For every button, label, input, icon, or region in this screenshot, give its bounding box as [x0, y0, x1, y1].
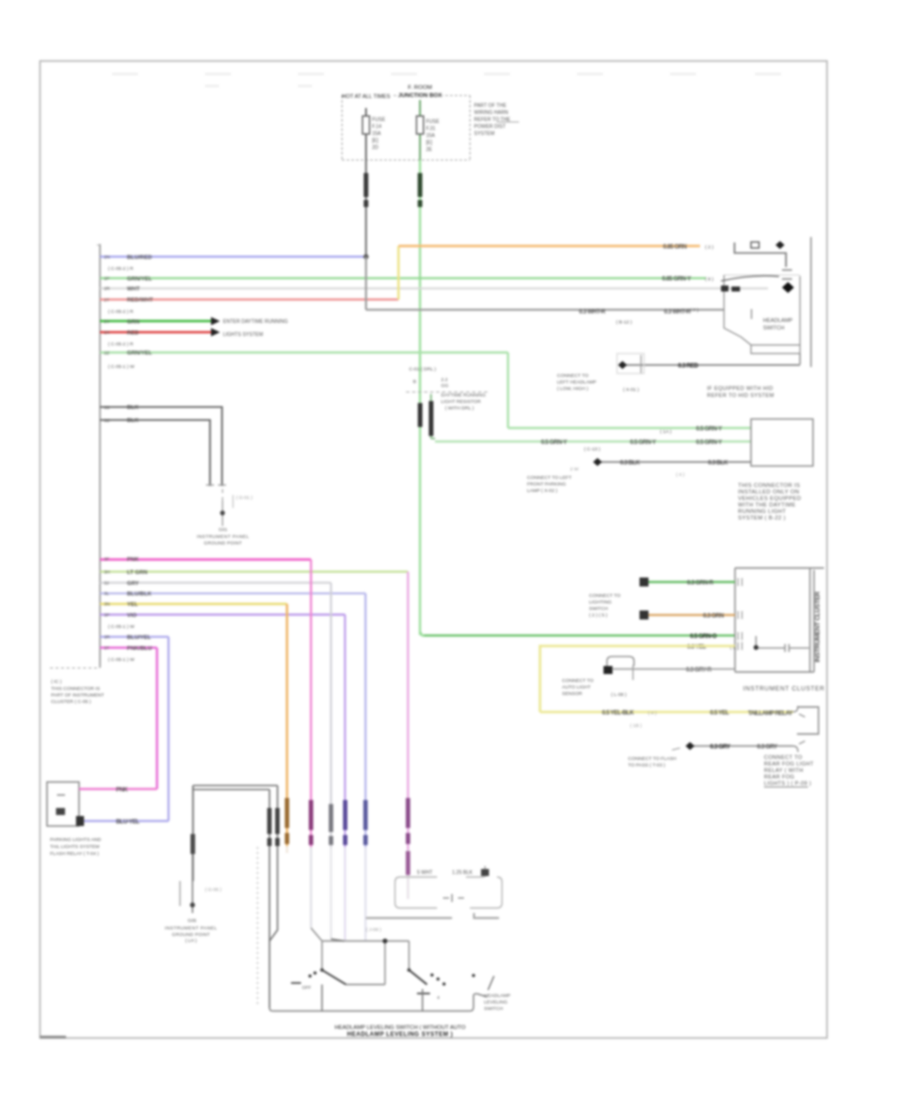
svg-text:3F: 3F [104, 556, 110, 561]
svg-text:0.5 GRN-Y: 0.5 GRN-Y [696, 427, 722, 433]
svg-text:WHT: WHT [127, 287, 140, 293]
svg-text:2X: 2X [104, 330, 110, 335]
svg-text:( C-05-1 ) W: ( C-05-1 ) W [108, 624, 135, 630]
svg-text:FUSE: FUSE [372, 117, 386, 123]
svg-text:0.3 ORN: 0.3 ORN [703, 614, 724, 620]
svg-text:( J-08 ): ( J-08 ) [366, 927, 382, 933]
svg-text:RUNNING LIGHT: RUNNING LIGHT [738, 509, 786, 515]
svg-text:CONNECT TO: CONNECT TO [764, 755, 802, 761]
svg-text:F.31: F.31 [426, 126, 436, 132]
svg-text:0.5 GRN-Y: 0.5 GRN-Y [630, 440, 656, 446]
svg-text:CONNECT TO: CONNECT TO [589, 593, 621, 599]
svg-text:TAILLAMP RELAY: TAILLAMP RELAY [748, 711, 793, 717]
svg-text:0.3 GRY: 0.3 GRY [710, 745, 730, 751]
svg-text:BLK: BLK [127, 405, 139, 411]
svg-text:( 4 ): ( 4 ) [676, 472, 685, 478]
svg-text:LT GRN: LT GRN [127, 570, 147, 576]
svg-text:2.2: 2.2 [441, 377, 448, 383]
svg-text:3N: 3N [104, 602, 110, 607]
svg-text:( C-05-2 ) R: ( C-05-2 ) R [108, 342, 134, 348]
svg-text:( 4 ): ( 4 ) [648, 711, 657, 717]
svg-text:LIGHTS ) ( P-09 ): LIGHTS ) ( P-09 ) [764, 781, 811, 787]
svg-text:G05: G05 [188, 918, 197, 923]
svg-text:( L-08 ): ( L-08 ) [611, 692, 627, 698]
svg-text:PART OF THE: PART OF THE [474, 103, 507, 109]
svg-text:SYSTEM: SYSTEM [474, 131, 495, 137]
svg-text:2E: 2E [426, 147, 433, 153]
svg-text:GROUND POINT: GROUND POINT [172, 932, 210, 937]
svg-text:( C-05-1 ) W: ( C-05-1 ) W [108, 657, 135, 663]
svg-text:PARKING LIGHTS AND: PARKING LIGHTS AND [50, 837, 102, 843]
svg-text:GRY: GRY [127, 581, 139, 587]
svg-text:BLU-YEL: BLU-YEL [116, 820, 140, 826]
svg-text:HEADLAMP: HEADLAMP [484, 993, 510, 999]
svg-text:JUNCTION BOX: JUNCTION BOX [398, 93, 442, 99]
svg-text:3L: 3L [104, 591, 110, 596]
svg-text:LAMP ( X-02 ): LAMP ( X-02 ) [527, 488, 558, 494]
svg-text:WITH THE DAYTIME: WITH THE DAYTIME [738, 503, 796, 509]
svg-text:CONNECT TO FLASH: CONNECT TO FLASH [628, 756, 677, 762]
svg-text:GROUND POINT: GROUND POINT [204, 541, 242, 546]
svg-text:GRN: GRN [127, 319, 139, 325]
svg-text:( 7 ): ( 7 ) [690, 308, 699, 314]
svg-text:AUTO LIGHT: AUTO LIGHT [562, 685, 591, 691]
svg-text:VIO: VIO [127, 613, 137, 619]
svg-text:0.3 BLK: 0.3 BLK [708, 461, 729, 467]
svg-text:FRONT PARKING: FRONT PARKING [527, 482, 566, 488]
svg-text:RELAY ( WITH: RELAY ( WITH [764, 768, 803, 774]
svg-text:CONNECT TO LEFT: CONNECT TO LEFT [527, 475, 572, 481]
svg-text:0.5 YEL: 0.5 YEL [710, 711, 730, 717]
svg-text:IF EQUIPPED WITH HID: IF EQUIPPED WITH HID [707, 386, 773, 392]
svg-text:( WITH DRL ): ( WITH DRL ) [445, 406, 474, 412]
svg-text:3D: 3D [104, 418, 111, 423]
svg-text:INSTRUMENT PANEL: INSTRUMENT PANEL [197, 534, 249, 539]
svg-text:( G-05 ): ( G-05 ) [205, 887, 222, 893]
svg-text:0.3 GRY: 0.3 GRY [757, 745, 777, 751]
svg-text:( IC ): ( IC ) [51, 679, 62, 685]
svg-text:YEL: YEL [127, 602, 138, 608]
svg-text:SENSOR: SENSOR [562, 691, 583, 697]
svg-text:INSTRUMENT CLUSTER: INSTRUMENT CLUSTER [815, 591, 822, 662]
svg-text:0.85 ORN: 0.85 ORN [663, 245, 687, 251]
svg-text:( 1A ): ( 1A ) [660, 429, 672, 435]
svg-text:( 1B ): ( 1B ) [630, 723, 642, 729]
svg-text:PNK: PNK [116, 788, 129, 794]
svg-text:HEADLAMP LEVELING SYSTEM ): HEADLAMP LEVELING SYSTEM ) [347, 1032, 453, 1038]
svg-text:( C-05-2 ) R: ( C-05-2 ) R [108, 309, 134, 315]
svg-text:3J: 3J [104, 581, 109, 586]
svg-text:0.5 GRN-Y: 0.5 GRN-Y [696, 440, 722, 446]
svg-text:HEADLAMP: HEADLAMP [763, 318, 793, 324]
svg-text:( 2 ): ( 2 ) [705, 245, 714, 251]
svg-text:[E]: [E] [372, 138, 379, 144]
svg-text:3T: 3T [104, 646, 110, 651]
svg-text:BLU/YEL: BLU/YEL [127, 635, 152, 641]
svg-text:2N: 2N [104, 255, 110, 260]
svg-text:POWER DIST: POWER DIST [474, 124, 506, 130]
svg-text:2R: 2R [104, 286, 111, 291]
svg-text:CLUSTER ( C-05 ): CLUSTER ( C-05 ) [51, 699, 91, 705]
svg-text:B: B [413, 379, 416, 385]
svg-text:0.5 GRN-O: 0.5 GRN-O [690, 634, 717, 640]
svg-text:2P: 2P [104, 276, 110, 281]
svg-text:REAR FOG LIGHT: REAR FOG LIGHT [764, 762, 814, 768]
svg-text:BLU/BLK: BLU/BLK [127, 592, 152, 598]
svg-text:FUSE: FUSE [426, 119, 440, 125]
svg-text:( C-05-1 ) W: ( C-05-1 ) W [108, 364, 135, 370]
svg-text:HOT AT ALL TIMES: HOT AT ALL TIMES [342, 94, 391, 100]
svg-text:0.3 WHT-R: 0.3 WHT-R [664, 309, 691, 315]
svg-text:2D: 2D [372, 145, 379, 151]
svg-text:4: 4 [437, 995, 440, 1000]
svg-text:CONNECT TO: CONNECT TO [557, 373, 589, 379]
svg-text:BLU/RED: BLU/RED [127, 255, 152, 261]
svg-text:0.85 GRN-Y: 0.85 GRN-Y [662, 277, 691, 283]
svg-text:GRN/YEL: GRN/YEL [127, 351, 152, 357]
svg-text:1.25 BLK: 1.25 BLK [452, 870, 473, 876]
svg-text:0.3 WHT-R: 0.3 WHT-R [579, 309, 606, 315]
svg-text:TAIL LIGHTS SYSTEM: TAIL LIGHTS SYSTEM [50, 844, 99, 850]
svg-text:( LOW, HIGH ): ( LOW, HIGH ) [557, 386, 589, 392]
svg-text:( G-01 ): ( G-01 ) [236, 495, 253, 501]
svg-text:SYSTEM ( B-22 ): SYSTEM ( B-22 ) [738, 516, 786, 522]
svg-text:INSTRUMENT PANEL: INSTRUMENT PANEL [165, 926, 217, 931]
svg-text:3H: 3H [104, 570, 110, 575]
svg-text:GRN/YEL: GRN/YEL [127, 276, 152, 282]
svg-text:2V: 2V [104, 319, 111, 324]
svg-text:PNK/BLU: PNK/BLU [127, 646, 152, 652]
svg-text:RED: RED [127, 330, 139, 336]
svg-text:SWITCH: SWITCH [763, 326, 784, 332]
svg-text:3B: 3B [104, 405, 110, 410]
svg-text:INSTRUMENT CLUSTER: INSTRUMENT CLUSTER [743, 686, 825, 693]
svg-text:0.3 RED: 0.3 RED [678, 364, 699, 370]
svg-text:WIRING HARN: WIRING HARN [474, 110, 509, 116]
svg-text:LEVELING: LEVELING [484, 1000, 508, 1006]
svg-text:( 8 ): ( 8 ) [705, 277, 714, 283]
svg-text:C-01 ( DRL ): C-01 ( DRL ) [409, 367, 436, 373]
svg-text:0.3 GRN-R: 0.3 GRN-R [687, 581, 714, 587]
svg-text:TO PASS ( T-03 ): TO PASS ( T-03 ) [628, 763, 665, 769]
svg-text:[E]: [E] [426, 140, 433, 146]
svg-text:0.5 GRN-Y: 0.5 GRN-Y [541, 440, 567, 446]
svg-text:REAR FOG: REAR FOG [764, 775, 795, 781]
svg-text:F. ROOM: F. ROOM [408, 85, 432, 91]
svg-text:SWITCH: SWITCH [484, 1006, 503, 1012]
svg-text:3P: 3P [104, 612, 110, 617]
svg-text:RED/WHT: RED/WHT [127, 298, 154, 304]
svg-text:VEHICLES EQUIPPED: VEHICLES EQUIPPED [738, 496, 801, 502]
svg-text:INSTALLED ONLY ON: INSTALLED ONLY ON [738, 490, 799, 496]
svg-text:( C-05-2 ) R: ( C-05-2 ) R [108, 266, 134, 272]
svg-text:CONNECT TO: CONNECT TO [562, 678, 594, 684]
svg-text:2T: 2T [104, 297, 110, 302]
svg-text:THIS CONNECTOR IS: THIS CONNECTOR IS [738, 483, 800, 489]
svg-text:SWITCH: SWITCH [589, 606, 608, 612]
svg-text:F.14: F.14 [372, 124, 382, 130]
svg-text:OFF: OFF [302, 985, 311, 990]
svg-text:3R: 3R [104, 635, 111, 640]
svg-text:LIGHTS SYSTEM: LIGHTS SYSTEM [223, 332, 263, 338]
svg-text:THIS CONNECTOR IS: THIS CONNECTOR IS [51, 686, 100, 692]
svg-text:LIGHTING: LIGHTING [589, 600, 612, 606]
svg-text:LIGHT RESISTOR: LIGHT RESISTOR [441, 399, 481, 405]
svg-text:0.3 BLK: 0.3 BLK [620, 461, 641, 467]
svg-text:2 W: 2 W [570, 467, 579, 473]
svg-text:( X-01 ): ( X-01 ) [623, 387, 639, 393]
svg-text:DAYTIME RUNNING: DAYTIME RUNNING [441, 393, 486, 399]
svg-text:ENTER DAYTIME RUNNING: ENTER DAYTIME RUNNING [223, 319, 288, 325]
svg-text:FLASH RELAY ( T-04 ): FLASH RELAY ( T-04 ) [50, 851, 99, 857]
svg-text:( 2 ) ( 5 ): ( 2 ) ( 5 ) [589, 613, 608, 619]
svg-text:HEADLAMP LEVELING SWITCH ( WIT: HEADLAMP LEVELING SWITCH ( WITHOUT AUTO [335, 1025, 467, 1031]
svg-text:LEFT HEADLAMP: LEFT HEADLAMP [557, 380, 596, 386]
svg-text:( B-12 ): ( B-12 ) [616, 320, 632, 326]
svg-text:REFER TO HID SYSTEM: REFER TO HID SYSTEM [707, 393, 774, 399]
svg-text:BLK: BLK [127, 418, 139, 424]
svg-text:5 WHT: 5 WHT [417, 870, 433, 876]
svg-text:2Z: 2Z [104, 350, 110, 355]
svg-text:GG: GG [441, 383, 449, 389]
svg-text:( LH ): ( LH ) [185, 938, 197, 943]
svg-text:( C-13 ): ( C-13 ) [584, 447, 601, 453]
svg-text:PNK: PNK [127, 557, 139, 563]
svg-text:15A: 15A [372, 131, 382, 137]
svg-text:G01: G01 [219, 527, 228, 532]
svg-text:PART OF INSTRUMENT: PART OF INSTRUMENT [51, 693, 104, 699]
svg-text:15A: 15A [426, 133, 436, 139]
svg-text:0.5 YEL-BLK: 0.5 YEL-BLK [602, 711, 635, 717]
